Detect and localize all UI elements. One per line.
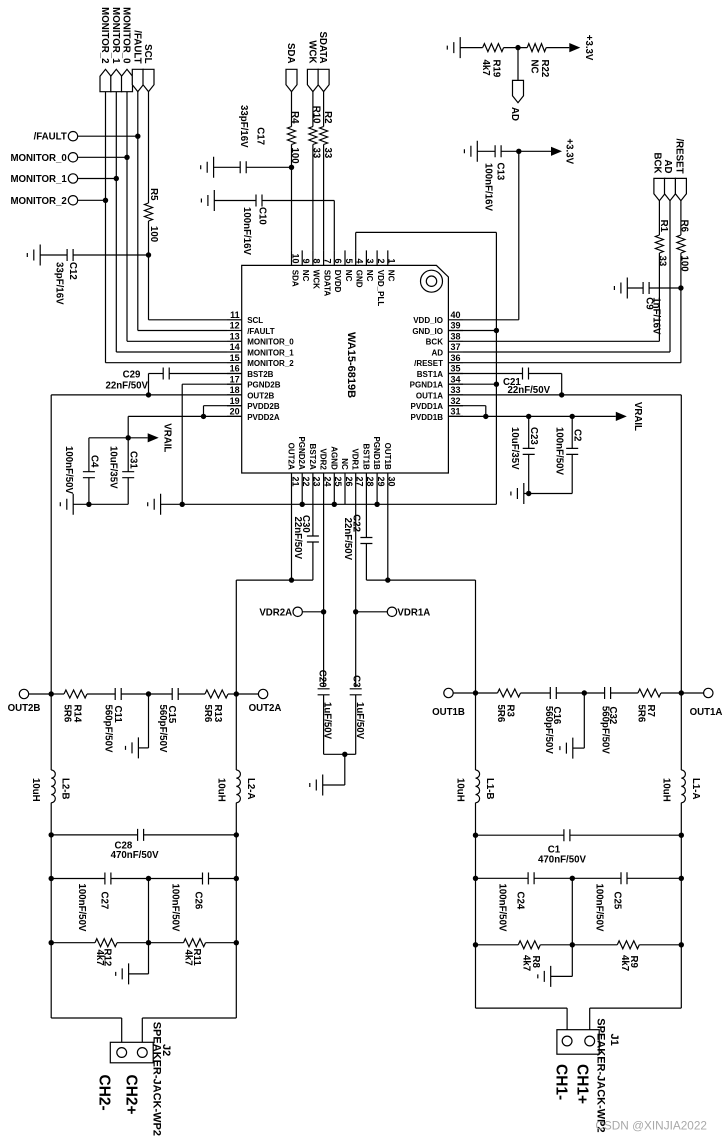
ground (201, 190, 214, 211)
U1 pin 37 AD (431, 342, 463, 357)
junction (146, 940, 151, 945)
svg-text:29: 29 (376, 477, 386, 487)
svg-text:9: 9 (301, 258, 311, 263)
svg-text:/FAULT: /FAULT (34, 132, 67, 143)
svg-text:WCK: WCK (306, 40, 317, 63)
junction (494, 328, 499, 333)
svg-text:10uH: 10uH (455, 778, 466, 802)
connector BCK (651, 153, 665, 201)
junction (559, 392, 564, 397)
capacitor C13 (477, 145, 551, 211)
U1 pin 15 MONITOR_2 (227, 353, 294, 368)
svg-text:10uH: 10uH (215, 778, 226, 802)
U1 pin 12 /FAULT (227, 321, 275, 336)
svg-text:OUT2A: OUT2A (287, 443, 296, 470)
svg-text:C31: C31 (128, 451, 139, 469)
svg-text:NC: NC (528, 60, 539, 74)
svg-text:VDD_IO: VDD_IO (413, 316, 443, 325)
resistor R8 (476, 941, 573, 971)
ground (27, 245, 40, 266)
wire (148, 879, 150, 943)
U1 pin 29 PGND1B (372, 436, 386, 488)
wire SDA (291, 92, 293, 251)
svg-text:C13: C13 (494, 163, 505, 181)
wire VDR2 (323, 488, 325, 686)
svg-text:470nF/50V: 470nF/50V (111, 850, 159, 861)
resistor R12 (51, 939, 148, 967)
capacitor C15 (149, 688, 206, 753)
svg-text:3: 3 (365, 258, 375, 263)
ground (560, 738, 573, 759)
U1 pin 36 /RESET (414, 353, 463, 368)
svg-text:NC: NC (340, 458, 349, 470)
junction (103, 198, 108, 203)
U1 pin 9 NC (301, 250, 311, 281)
svg-text:C27: C27 (98, 892, 109, 910)
port OUT2B (8, 689, 52, 714)
svg-text:MONITOR_1: MONITOR_1 (10, 174, 67, 185)
power VRAIL (616, 402, 643, 431)
connector AD (509, 80, 524, 121)
svg-text:13: 13 (230, 332, 240, 342)
connector /RESET (673, 139, 686, 201)
U1 pin 14 MONITOR_1 (227, 342, 294, 357)
svg-text:OUT1B: OUT1B (432, 707, 465, 718)
wire PVDD2A (128, 416, 242, 437)
svg-text:/FAULT: /FAULT (247, 327, 275, 336)
svg-text:NC: NC (365, 270, 374, 282)
svg-text:C4: C4 (88, 455, 99, 468)
U1 pin 5 NC (344, 250, 354, 281)
svg-text:C12: C12 (67, 262, 78, 280)
ground (614, 278, 627, 299)
port /FAULT (34, 132, 138, 143)
svg-text:5R6: 5R6 (202, 705, 213, 723)
svg-text:/FAULT: /FAULT (131, 30, 142, 63)
label CH2+ (123, 1075, 140, 1115)
svg-text:C23: C23 (528, 427, 539, 445)
resistor R9 (572, 941, 681, 971)
svg-text:C26: C26 (193, 892, 204, 910)
junction (679, 942, 684, 947)
port OUT2A (236, 689, 281, 714)
resistor R1 (655, 201, 669, 342)
power VRAIL (148, 423, 173, 452)
junction (126, 435, 131, 440)
wire (235, 835, 237, 879)
wire MONITOR_1 (116, 92, 227, 352)
svg-text:10uF/35V: 10uF/35V (108, 446, 119, 489)
wire (680, 835, 682, 878)
wire (50, 879, 52, 943)
wire CH2- (142, 943, 236, 1043)
svg-text:C2: C2 (572, 429, 583, 441)
svg-text:10: 10 (290, 253, 300, 263)
wire OUT1A (448, 395, 681, 694)
U1 pin 28 BST1B (361, 444, 375, 488)
connector SCL (142, 44, 154, 91)
connector MONITOR_2 (99, 7, 111, 92)
svg-text:VDR2: VDR2 (319, 448, 328, 470)
wire (524, 493, 572, 495)
svg-text:OUT1A: OUT1A (690, 707, 723, 718)
svg-text:27: 27 (355, 477, 365, 487)
wire VDD_IO (463, 151, 519, 319)
wire (475, 878, 477, 945)
U1 pin 32 PVDD1A (411, 396, 463, 411)
U1 pin 22 PGND2A (297, 436, 311, 488)
junction (353, 609, 358, 614)
junction (473, 833, 478, 838)
svg-text:CH1-: CH1- (553, 1064, 570, 1100)
svg-text:100: 100 (289, 148, 300, 164)
svg-text:560pF/50V: 560pF/50V (599, 706, 610, 754)
U1 pin 6 DVDD (333, 250, 343, 292)
junction (201, 414, 206, 419)
wire CH1+ (590, 945, 682, 1030)
port MONITOR_1 (10, 174, 116, 185)
svg-text:C20: C20 (317, 670, 328, 688)
U1 pin 2 VDD_PLL (376, 250, 386, 306)
svg-text:OUT2B: OUT2B (8, 703, 41, 714)
svg-text:J1: J1 (608, 1034, 620, 1046)
svg-text:4k7: 4k7 (480, 60, 491, 76)
wire PGND2A (301, 488, 303, 504)
junction (526, 491, 531, 496)
inductor L2-B (30, 770, 70, 803)
U1 pin 38 BCK (426, 332, 463, 347)
op-amp U1 WA15-6819B body (242, 265, 449, 473)
svg-text:6: 6 (333, 258, 343, 263)
U1 pin 40 VDD_IO (413, 310, 463, 325)
ground (447, 37, 460, 58)
capacitor C32 (584, 687, 638, 754)
junction (49, 691, 54, 696)
resistor R2 (320, 111, 333, 159)
capacitor C1 (476, 829, 682, 865)
svg-text:11: 11 (230, 310, 240, 320)
wire (235, 694, 237, 770)
junction (342, 752, 347, 757)
junction (234, 691, 239, 696)
svg-text:10uF/35V: 10uF/35V (509, 427, 520, 470)
capacitor C25 (572, 872, 681, 932)
junction (135, 134, 140, 139)
svg-text:MONITOR_2: MONITOR_2 (247, 359, 294, 368)
junction (86, 502, 91, 507)
svg-text:VRAIL: VRAIL (632, 402, 643, 431)
svg-text:R19: R19 (490, 60, 501, 78)
junction (146, 392, 151, 397)
svg-text:SDATA: SDATA (317, 32, 328, 64)
wire MONITOR_2 (106, 92, 228, 363)
U1 pin 3 NC (365, 250, 375, 281)
svg-text:C24: C24 (515, 892, 526, 910)
svg-text:18: 18 (230, 385, 240, 395)
svg-text:+3.3V: +3.3V (564, 139, 575, 165)
junction (234, 940, 239, 945)
wire OUT2B (51, 395, 242, 694)
wire (504, 47, 528, 49)
U1 pin 31 PVDD1B (411, 407, 463, 422)
svg-text:28: 28 (365, 477, 375, 487)
port VDR2A (259, 607, 323, 618)
resistor R14 (51, 690, 115, 723)
svg-text:BST2A: BST2A (308, 444, 317, 470)
svg-text:40: 40 (451, 310, 461, 320)
svg-text:20: 20 (230, 407, 240, 417)
label CH1- (553, 1064, 570, 1100)
wire VDR1 (355, 488, 357, 686)
svg-text:SPEAKER-JACK-WP2: SPEAKER-JACK-WP2 (594, 1018, 606, 1132)
junction (146, 876, 151, 881)
wire WCK (312, 92, 314, 251)
connector MONITOR_0 (121, 7, 133, 92)
power +3.3V (569, 35, 594, 61)
junction (49, 832, 54, 837)
svg-text:C17: C17 (255, 127, 266, 145)
U1 pin 35 BST1A (417, 364, 463, 379)
svg-text:L2-B: L2-B (60, 778, 71, 800)
junction (570, 942, 575, 947)
connector /FAULT (131, 30, 143, 91)
ground (116, 963, 129, 984)
svg-text:5: 5 (344, 258, 354, 263)
svg-text:16: 16 (230, 364, 240, 374)
svg-text:10uH: 10uH (30, 778, 41, 802)
junction (321, 609, 326, 614)
svg-text:PGND1B: PGND1B (372, 436, 381, 470)
junction (515, 45, 520, 50)
junction (300, 502, 305, 507)
junction (526, 414, 531, 419)
resistor R11 (149, 939, 237, 967)
svg-text:VDR1A: VDR1A (397, 607, 430, 618)
wire AGND pin25 (333, 488, 335, 504)
U1 pin 1 NC (387, 250, 397, 281)
svg-text:L1-A: L1-A (690, 778, 701, 800)
capacitor C4 (63, 438, 99, 505)
svg-text:33: 33 (451, 385, 461, 395)
wire (50, 803, 52, 835)
resistor R22 (527, 44, 569, 78)
svg-text:19: 19 (230, 396, 240, 406)
svg-text:34: 34 (451, 374, 461, 384)
ground (201, 157, 214, 178)
U1 pin 13 MONITOR_0 (227, 332, 294, 347)
svg-text:32: 32 (451, 396, 461, 406)
wire OUT2A (236, 488, 291, 694)
junction (473, 690, 478, 695)
wire AD (463, 201, 670, 352)
svg-text:CH2+: CH2+ (123, 1075, 140, 1115)
svg-text:MONITOR_0: MONITOR_0 (10, 153, 66, 164)
U1 part name WA15-6819B (345, 332, 357, 398)
capacitor C12 (40, 249, 148, 305)
svg-text:560pF/50V: 560pF/50V (103, 705, 114, 753)
capacitor C29 (105, 368, 241, 395)
svg-text:23: 23 (312, 477, 322, 487)
svg-text:VDD_PLL: VDD_PLL (376, 270, 385, 307)
svg-text:1: 1 (387, 258, 397, 263)
svg-text:7: 7 (322, 258, 332, 263)
U1 pin 39 GND_IO (412, 321, 463, 336)
svg-text:560pF/50V: 560pF/50V (157, 705, 168, 753)
svg-text:C29: C29 (123, 370, 141, 381)
svg-text:SDATA: SDATA (322, 270, 331, 297)
svg-text:PVDD1A: PVDD1A (411, 402, 444, 411)
svg-text:100nF/50V: 100nF/50V (63, 446, 74, 494)
U1 pin 17 PGND2B (227, 374, 281, 389)
svg-text:AD: AD (662, 160, 673, 174)
svg-text:+3.3V: +3.3V (583, 35, 594, 61)
wire (680, 693, 682, 770)
resistor R19 (460, 44, 503, 78)
svg-text:SPEAKER-JACK-WP2: SPEAKER-JACK-WP2 (151, 1022, 163, 1136)
capacitor C9 (627, 282, 681, 335)
svg-text:AD: AD (509, 107, 520, 121)
inductor L1-A (660, 770, 701, 803)
junction (374, 502, 379, 507)
svg-text:31: 31 (451, 407, 461, 417)
junction (49, 876, 54, 881)
power +3.3V (551, 139, 575, 165)
junction (289, 165, 294, 170)
U1 pin 8 WCK (312, 250, 322, 289)
capacitor C20 (317, 670, 345, 755)
svg-text:33: 33 (657, 256, 668, 267)
port OUT1B (432, 688, 475, 718)
U1 pin 24 VDR2 (319, 448, 333, 488)
svg-text:PVDD2A: PVDD2A (247, 413, 280, 422)
svg-text:C25: C25 (612, 892, 623, 910)
svg-text:WCK: WCK (312, 270, 321, 289)
svg-text:21: 21 (290, 477, 300, 487)
svg-text:AGND: AGND (329, 446, 338, 470)
wire (235, 803, 237, 835)
junction (124, 155, 129, 160)
junction (234, 832, 239, 837)
svg-text:38: 38 (451, 332, 461, 342)
junction (473, 942, 478, 947)
svg-text:22nF/50V: 22nF/50V (508, 385, 551, 396)
svg-text:26: 26 (344, 477, 354, 487)
junction (332, 502, 337, 507)
connector SDA (285, 43, 297, 92)
svg-text:30: 30 (387, 477, 397, 487)
junction (146, 691, 151, 696)
junction (516, 149, 521, 154)
svg-text:14: 14 (230, 342, 240, 352)
svg-text:R22: R22 (539, 60, 550, 78)
capacitor C21 (448, 368, 561, 396)
resistor R10 (309, 106, 322, 159)
svg-text:33pF/16V: 33pF/16V (54, 262, 65, 305)
junction (49, 940, 54, 945)
wire AD (517, 48, 519, 81)
svg-text:R4: R4 (289, 111, 300, 124)
U1 pin 20 PVDD2A (227, 407, 280, 422)
label CH1+ (574, 1064, 591, 1104)
junction (494, 382, 499, 387)
resistor R3 (476, 689, 551, 723)
port VDR1A (356, 607, 431, 618)
wire (50, 835, 52, 879)
ground (126, 737, 139, 758)
resistor R13 (202, 690, 236, 723)
svg-text:MONITOR_1: MONITOR_1 (247, 348, 294, 357)
port MONITOR_0 (10, 153, 127, 164)
wire CH1- (476, 945, 568, 1030)
wire (551, 945, 573, 977)
connector SDATA (317, 32, 329, 92)
wire /FAULT (138, 92, 227, 331)
wire PVDD1A (448, 406, 485, 417)
svg-text:SDA: SDA (290, 270, 299, 287)
svg-text:OUT2B: OUT2B (247, 391, 274, 400)
wire (680, 878, 682, 945)
svg-text:100nF/50V: 100nF/50V (170, 884, 181, 932)
svg-text:PVDD2B: PVDD2B (247, 402, 280, 411)
capacitor C30 (292, 488, 319, 580)
junction (234, 876, 239, 881)
svg-text:DVDD: DVDD (333, 270, 342, 293)
svg-text:4k7: 4k7 (521, 955, 532, 971)
capacitor C28 (51, 829, 236, 861)
svg-text:MONITOR_2: MONITOR_2 (10, 196, 66, 207)
wire GND (356, 232, 497, 504)
svg-text:CSDN @XINJIA2022: CSDN @XINJIA2022 (595, 1119, 707, 1133)
svg-text:R10: R10 (310, 106, 321, 124)
svg-text:5R6: 5R6 (635, 705, 646, 723)
svg-text:SDA: SDA (285, 43, 296, 63)
svg-text:SCL: SCL (142, 44, 153, 63)
svg-text:R1: R1 (658, 220, 669, 233)
U1 pin 19 PVDD2B (227, 396, 280, 411)
svg-text:MONITOR_2: MONITOR_2 (99, 7, 110, 63)
svg-text:BST1B: BST1B (361, 444, 370, 470)
svg-text:1uF/50V: 1uF/50V (321, 702, 332, 740)
svg-text:100nF/50V: 100nF/50V (76, 884, 87, 932)
U1 pin 34 PGND1A (410, 374, 463, 389)
wire (73, 503, 128, 505)
svg-text:L2-A: L2-A (245, 778, 256, 800)
capacitor C11 (103, 688, 149, 753)
svg-text:100: 100 (148, 226, 159, 242)
U1 pin 23 BST2A (308, 444, 322, 488)
capacitor C23 (509, 416, 539, 493)
capacitor C16 (543, 687, 584, 754)
wire AGND (161, 503, 497, 505)
ground (511, 483, 524, 504)
svg-text:36: 36 (451, 353, 461, 363)
wire (573, 693, 585, 748)
svg-text:/RESET: /RESET (414, 359, 443, 368)
svg-text:/RESET: /RESET (673, 139, 684, 174)
U1 pin 16 BST2B (227, 364, 274, 379)
svg-text:CH1+: CH1+ (574, 1064, 591, 1104)
junction (114, 176, 119, 181)
svg-text:R6: R6 (679, 220, 690, 233)
wire (323, 754, 345, 785)
connector MONITOR_1 (110, 7, 122, 92)
U1 index mark circle (421, 270, 443, 292)
U1 pin 7 SDATA (322, 250, 332, 296)
capacitor C10 (214, 195, 334, 256)
svg-text:8: 8 (312, 258, 322, 263)
capacitor C27 (51, 873, 148, 932)
svg-text:AD: AD (431, 348, 443, 357)
